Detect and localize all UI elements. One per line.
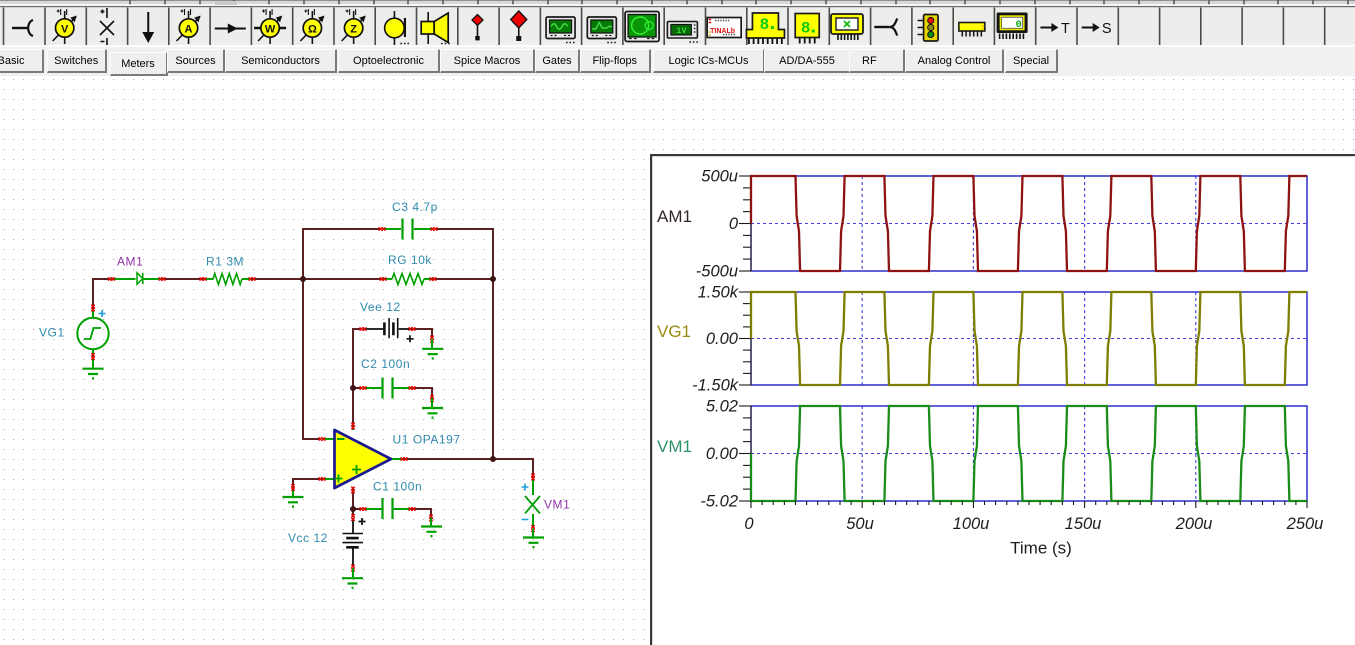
svg-text:R1 3M: R1 3M	[206, 255, 244, 269]
wire AM1 to R1	[163, 278, 203, 280]
capacitor C2 100n	[363, 387, 412, 389]
wire C1 right to ground	[412, 509, 431, 517]
time axis labels	[744, 515, 1323, 533]
time axis ticks	[751, 501, 1307, 508]
U1 pin markers	[319, 437, 326, 440]
resistor RG 10k	[383, 278, 433, 280]
toolbar: Meters component icon bar	[0, 0, 1355, 47]
ammeter AM1	[111, 278, 163, 280]
wire Vee corner down to op-amp V+ pin	[353, 329, 362, 426]
wire C3 right down to node B	[435, 229, 493, 279]
junction node A	[300, 276, 306, 282]
svg-text:C1 100n: C1 100n	[373, 480, 422, 494]
wire node A down to inverting input	[303, 279, 321, 439]
svg-text:0.00: 0.00	[706, 330, 739, 348]
ground right of C1	[421, 527, 442, 537]
diagram window	[652, 156, 1355, 645]
plot VG1: y-axis labels	[692, 284, 739, 395]
svg-text:AM1: AM1	[657, 207, 692, 226]
plot AM1: frame and grid	[751, 176, 1307, 271]
svg-text:-5.02: -5.02	[700, 493, 738, 511]
wire C2 right to ground	[412, 388, 432, 398]
ground below VM1	[523, 538, 544, 548]
Vcc pin markers	[351, 514, 354, 521]
wire VG1 top to AM1	[93, 279, 111, 308]
svg-text:0.00: 0.00	[706, 445, 739, 463]
svg-text:-500u: -500u	[696, 263, 738, 281]
junction node B	[490, 276, 496, 282]
svg-text:V: V	[61, 24, 69, 36]
plot VG1: frame and grid	[751, 292, 1307, 385]
top strip: bottom edge of upper toolbar	[0, 0, 1355, 6]
svg-text:50u: 50u	[846, 515, 874, 533]
svg-text:150u: 150u	[1065, 515, 1102, 533]
svg-text:250u: 250u	[1286, 515, 1324, 533]
VM1 plus/minus polarity marks	[522, 484, 529, 520]
voltage generator VG1	[92, 308, 94, 368]
svg-text:0: 0	[744, 515, 754, 533]
wire Vee right to ground	[412, 329, 432, 338]
plot VM1: trace	[751, 406, 1307, 501]
wire op-amp V- pin to Vcc	[352, 490, 354, 517]
AM1 pin markers	[108, 277, 115, 280]
svg-text:1.50k: 1.50k	[698, 284, 739, 302]
wire non-inverting input to ground corner	[293, 479, 322, 487]
wire node A up to C3	[303, 229, 381, 279]
svg-text:C2 100n: C2 100n	[361, 357, 410, 371]
wire node D to C1	[353, 508, 362, 510]
plot AM1: trace	[751, 176, 1307, 271]
plot VM1: frame and grid	[751, 406, 1307, 501]
svg-text:Vee 12: Vee 12	[360, 300, 401, 314]
ground at non-inverting input	[283, 497, 304, 507]
VG1 pin markers	[91, 305, 94, 312]
resistor R1 3M	[203, 278, 252, 280]
capacitor C3 4.7p	[382, 228, 434, 230]
plot AM1: y-axis labels	[696, 168, 739, 281]
ground right of Vee	[422, 349, 443, 359]
capacitor C1 100n	[363, 508, 412, 510]
battery Vee 12	[363, 328, 412, 330]
C3 pin markers	[379, 227, 386, 230]
Vee pin markers	[360, 327, 367, 330]
svg-text:C3 4.7p: C3 4.7p	[392, 200, 438, 214]
ground pin marker at non-inverting input	[291, 484, 294, 491]
svg-text:U1 OPA197: U1 OPA197	[393, 433, 461, 447]
svg-text:200u: 200u	[1175, 515, 1213, 533]
wire R1 to RG via node	[252, 278, 383, 280]
ground right of C2	[422, 408, 443, 418]
svg-text:W: W	[265, 24, 276, 36]
svg-text:8: 8	[760, 16, 770, 34]
junction node D	[350, 506, 356, 512]
junction output node	[490, 456, 496, 462]
svg-text:8: 8	[801, 20, 811, 38]
C2 pin markers	[360, 386, 367, 389]
svg-text:A: A	[185, 24, 193, 36]
svg-text:AM1: AM1	[117, 255, 143, 269]
RG pin markers	[380, 277, 387, 280]
svg-text:0: 0	[1015, 19, 1021, 31]
svg-text:VG1: VG1	[657, 322, 691, 341]
wire node C to C2	[353, 387, 362, 389]
svg-text:VM1: VM1	[657, 437, 692, 456]
plot VG1: trace	[751, 292, 1307, 385]
svg-text:VM1: VM1	[544, 498, 570, 512]
svg-text:Time (s): Time (s)	[1010, 539, 1072, 558]
svg-text:-1.50k: -1.50k	[692, 377, 739, 395]
op-amp U1 OPA197	[322, 426, 404, 491]
svg-text:T: T	[1061, 21, 1070, 37]
wire output to VM1	[404, 459, 533, 477]
ground below Vcc	[342, 578, 363, 588]
C1 pin markers	[360, 507, 367, 510]
VM1 pin markers	[531, 474, 534, 481]
VG1 plus polarity mark	[99, 310, 106, 317]
R1 pin markers	[200, 277, 207, 280]
svg-text:1V: 1V	[676, 26, 687, 36]
svg-text:0: 0	[729, 215, 739, 233]
svg-text:500u: 500u	[701, 168, 738, 186]
wire right branch down to output node	[492, 279, 494, 459]
junction node C	[350, 385, 356, 391]
svg-text:Ω: Ω	[308, 24, 317, 36]
svg-text:Z: Z	[350, 24, 357, 36]
svg-text:S: S	[1102, 21, 1112, 37]
svg-text:100u: 100u	[953, 515, 990, 533]
voltmeter VM1	[532, 477, 534, 528]
Vcc plus polarity mark	[359, 518, 366, 525]
wire RG to right node	[433, 278, 493, 280]
ground below VG1	[83, 369, 104, 379]
Vee plus polarity mark	[407, 335, 414, 342]
svg-text:VG1: VG1	[39, 326, 65, 340]
battery Vcc 12	[352, 518, 354, 567]
svg-text:RG 10k: RG 10k	[388, 253, 432, 267]
component group tabs	[0, 47, 1355, 76]
svg-text:Vcc 12: Vcc 12	[288, 531, 328, 545]
svg-text:5.02: 5.02	[706, 398, 738, 416]
plot VM1: y-axis labels	[700, 398, 738, 511]
